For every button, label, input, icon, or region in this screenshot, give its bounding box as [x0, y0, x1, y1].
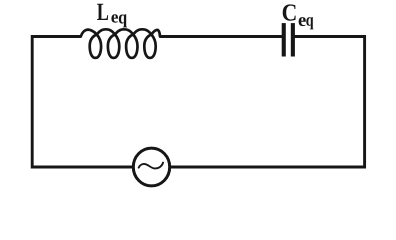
inductor L_eq (coil with 4 loops) — [81, 29, 160, 58]
AC source (circle) — [133, 148, 169, 186]
wire: left side, bottom, right side and top-right segment of the loop — [32, 37, 364, 168]
label L — [97, 4, 108, 20]
capacitor C_eq right plate — [291, 23, 295, 56]
label C — [283, 4, 296, 20]
label L subscript e — [111, 14, 118, 22]
label L subscript q — [119, 14, 127, 27]
label C subscript q — [306, 17, 313, 29]
wire: top segment between inductor and capacitor — [160, 35, 284, 38]
label C subscript e — [299, 17, 306, 26]
AC source sine symbol — [139, 163, 163, 169]
capacitor C_eq left plate — [282, 23, 286, 56]
